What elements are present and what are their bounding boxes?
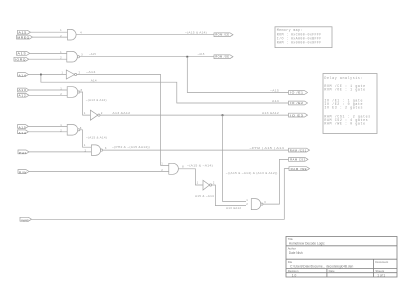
output port RAM CS2: [289, 158, 309, 162]
input port A14 (3rd): [18, 130, 29, 135]
svg-text:PH2: PH2: [19, 151, 27, 155]
inverter U9: [203, 180, 212, 190]
input port A15: [18, 30, 31, 34]
wire A14 to U1 pin2: [33, 36, 68, 38]
junction on ~A15 wire: [186, 56, 188, 58]
svg-text:Dale Nish: Dale Nish: [289, 251, 303, 255]
wire RW to U8 pin2: [29, 171, 169, 173]
input port A14 (2nd): [18, 73, 29, 78]
inverter U6: [90, 110, 100, 120]
svg-text:RAM /WE: RAM /WE: [291, 167, 308, 171]
svg-text:~((A15 & ~A14) & (A13 & A12)): ~((A15 & ~A14) & (A13 & A12)): [226, 171, 278, 175]
svg-text:Date: Date: [329, 269, 335, 273]
wire A14 branch down and right: [41, 75, 289, 104]
svg-text:A14: A14: [272, 99, 279, 103]
wire WE right then up to RAM /WE tag: [32, 169, 290, 220]
svg-text:IO /E2: IO /E2: [290, 101, 304, 105]
svg-text:R/W: R/W: [19, 171, 27, 175]
svg-text:ROM /OE: ROM /OE: [215, 55, 229, 59]
svg-text:RAM /WE : 0 gate: RAM /WE : 0 gate: [324, 122, 365, 126]
wire U8 out right then down to U9: [178, 169, 203, 185]
svg-text:Delay analysis:: Delay analysis:: [324, 76, 363, 80]
svg-text:RAM : 0x0000-0x9FFF: RAM : 0x0000-0x9FFF: [277, 41, 322, 45]
wire U2 out to ROM /OE tag: [80, 56, 215, 58]
output port IO /E1: [289, 91, 308, 95]
wire U4 out down to U6: [80, 92, 91, 115]
svg-text:A14: A14: [18, 131, 26, 135]
svg-text:Author: Author: [288, 247, 296, 251]
nand-gate U4: [67, 87, 80, 98]
svg-text:Sheets: Sheets: [375, 269, 384, 273]
output port ROM /CE: [214, 33, 233, 37]
svg-text:~(A15 & A14): ~(A15 & A14): [185, 31, 207, 35]
svg-text:A14: A14: [18, 74, 26, 78]
wire U10 out right then up to RAM CS2 tag: [263, 159, 289, 204]
svg-text:MREQ: MREQ: [17, 36, 30, 40]
output port IO /E2: [289, 101, 308, 105]
svg-text:1 of 1: 1 of 1: [377, 274, 385, 278]
svg-text:Revision: Revision: [288, 269, 299, 273]
svg-text:Document: Document: [375, 260, 388, 264]
output port ROM /OE: [214, 55, 233, 59]
wire U7 out to RAM /CS1 tag: [103, 149, 289, 151]
svg-text:~A15: ~A15: [270, 88, 279, 92]
svg-text:A12: A12: [18, 94, 26, 98]
svg-text:A15: A15: [17, 52, 26, 56]
svg-text:~(A15 & ~A14): ~(A15 & ~A14): [187, 164, 213, 168]
wire A12 to U4 pin2: [29, 94, 67, 96]
nand-gate U7: [91, 145, 102, 156]
title block: [286, 237, 397, 278]
wire A13 to U4 pin1: [29, 89, 67, 91]
svg-text:IO E3 : 2 gates: IO E3 : 2 gates: [324, 105, 363, 109]
svg-text:C:\Users\Dale\Docume... decod: C:\Users\Dale\Docume... decodelogic4B.de…: [290, 264, 353, 268]
delay analysis text box: [323, 74, 377, 134]
svg-text:IORQ: IORQ: [15, 58, 26, 62]
svg-text:A15 & ~A14: A15 & ~A14: [195, 194, 214, 198]
wire A15 to U2 pin1: [30, 52, 67, 54]
wire U9 out right then down to U10 pin2: [212, 185, 246, 206]
input port A12: [18, 93, 29, 97]
input port PH2: [14, 57, 29, 61]
svg-text:/WE: /WE: [21, 218, 30, 222]
junction on A13&A12 wire: [222, 114, 224, 116]
svg-text:A14: A14: [91, 79, 97, 83]
input port WE: [20, 217, 32, 222]
svg-text:ROM /OE : 1 gate: ROM /OE : 1 gate: [324, 88, 365, 92]
svg-text:~A15: ~A15: [89, 52, 96, 56]
and-gate U1: [68, 29, 77, 40]
wire A15 to U1 pin1: [31, 31, 68, 33]
memory map text box: [275, 27, 332, 48]
wire A14 to U5 pin2: [28, 131, 67, 133]
svg-text:Homebrew Decode Logic: Homebrew Decode Logic: [289, 242, 325, 246]
svg-text:A13 &A12: A13 &A12: [112, 111, 130, 115]
svg-text:~(PH2 & ~(A15 &A14)): ~(PH2 & ~(A15 &A14)): [112, 145, 150, 149]
input port A14: [17, 35, 33, 39]
wire PH2 to U2 pin2: [29, 58, 67, 60]
input port A15 (3rd): [18, 125, 29, 130]
nand-gate U2: [67, 51, 80, 62]
svg-text:~(A13 & A12): ~(A13 & A12): [86, 98, 107, 102]
wire U3 out right then down to U5 pin1: [77, 75, 169, 166]
svg-text:A15: A15: [18, 126, 26, 130]
wire U6 out to IO E3 tag: [100, 114, 289, 116]
output port IO E3: [289, 113, 308, 117]
output port RAM /CS1: [289, 148, 310, 152]
svg-text:1.0: 1.0: [292, 274, 297, 278]
wire A14 to U3: [28, 74, 66, 76]
svg-text:RAM CS2: RAM CS2: [290, 158, 306, 162]
nand-gate U5: [67, 125, 80, 136]
svg-text:RAM /CS1: RAM /CS1: [290, 148, 307, 152]
svg-text:File: File: [288, 260, 293, 264]
wire A15 to U5 pin1: [28, 125, 67, 127]
svg-text:ROM /CE: ROM /CE: [215, 33, 229, 37]
wire U1 out to ROM /CE tag: [76, 34, 214, 36]
junction on A14 wire: [40, 74, 42, 76]
inverter U3: [66, 70, 76, 79]
and-gate U10: [251, 199, 263, 210]
input port A15 (2nd): [17, 52, 30, 56]
wire PH2 to U7 pin2: [29, 151, 91, 153]
svg-text:A15: A15: [18, 30, 27, 34]
wire junction branch down to U10 pin1: [223, 115, 247, 201]
input port A13: [18, 88, 29, 92]
svg-text:~(A15 & A14): ~(A15 & A14): [86, 136, 107, 140]
svg-text:IO /E1: IO /E1: [290, 91, 304, 95]
svg-text:~A15: ~A15: [198, 52, 205, 56]
svg-text:A13: A13: [18, 88, 26, 92]
svg-text:~A14: ~A14: [86, 70, 96, 74]
svg-text:A13 &A12: A13 &A12: [262, 111, 279, 115]
svg-text:A13 &A12: A13 &A12: [226, 206, 241, 210]
wire ~A15 down and right to IO /E1 tag: [187, 57, 288, 93]
input port RW: [18, 170, 29, 175]
output port RAM /WE: [289, 167, 310, 171]
and-gate U8: [169, 163, 179, 174]
svg-text:~PH2 | A15 | A14: ~PH2 | A15 | A14: [249, 146, 284, 150]
svg-text:IO E3: IO E3: [290, 113, 304, 117]
wire U5 out down to U7 pin1: [80, 130, 92, 147]
svg-text:Title: Title: [288, 237, 294, 241]
input port PH2 (2nd): [18, 150, 29, 155]
